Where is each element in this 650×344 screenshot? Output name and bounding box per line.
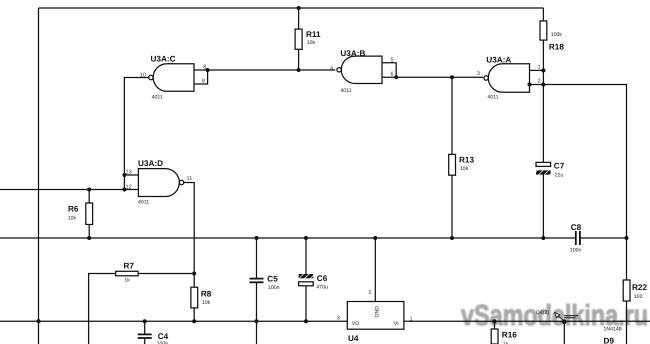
svg-text:VO: VO — [352, 321, 360, 327]
svg-text:2: 2 — [369, 290, 372, 296]
wire bottom rail left of U4 — [0, 320, 347, 322]
svg-text:U3A:C: U3A:C — [151, 55, 176, 64]
resistor R13 — [449, 154, 456, 175]
svg-text:22u: 22u — [555, 172, 564, 178]
wire U4 GND riser — [374, 238, 376, 302]
wire R22 to D9 — [626, 301, 628, 344]
svg-text:C7: C7 — [554, 161, 565, 170]
wire R7 right — [138, 273, 194, 275]
wire R6 riser bottom — [88, 225, 90, 239]
wire R8 to bottom rail — [193, 308, 195, 321]
wire Q4 branch down — [563, 321, 565, 344]
resistor R8 — [191, 287, 198, 308]
svg-text:1N4148: 1N4148 — [604, 327, 622, 333]
wire C5 riser top — [256, 238, 258, 278]
resistor R16 — [491, 329, 498, 344]
wire left vertical — [38, 8, 40, 344]
svg-text:12: 12 — [126, 184, 132, 190]
wire top rail — [39, 7, 544, 9]
svg-text:100n: 100n — [268, 285, 280, 291]
wire U3A:B pin5 stub — [382, 63, 396, 78]
wire U3A:C out to U3A:B in (y=70) — [194, 69, 335, 71]
wire R18 riser top — [542, 8, 544, 21]
resistor R11 — [295, 29, 302, 49]
resistor R6 — [86, 203, 93, 225]
svg-text:10k: 10k — [68, 216, 77, 222]
svg-text:11: 11 — [187, 176, 193, 182]
svg-text:R13: R13 — [459, 156, 474, 165]
wire net to U3A:D pin12 (y=189.5) — [0, 189, 138, 191]
wire y=238 C8 to R22 line — [581, 237, 627, 239]
svg-text:1k: 1k — [124, 278, 130, 284]
svg-text:U3A:D: U3A:D — [138, 159, 163, 168]
svg-text:1: 1 — [538, 65, 541, 71]
svg-text:9: 9 — [202, 78, 205, 84]
wire C6 riser bottom — [305, 286, 307, 321]
svg-text:C4: C4 — [158, 332, 169, 341]
wire R18 to C7 vertical — [542, 40, 544, 162]
wire U3A:A pin2 to R22 — [530, 85, 627, 281]
capacitor C6 (electrolytic) — [299, 274, 328, 291]
wire C5 riser bottom — [256, 283, 258, 344]
svg-text:U4: U4 — [348, 334, 359, 343]
svg-text:C6: C6 — [317, 274, 328, 283]
svg-text:4011: 4011 — [340, 88, 351, 94]
svg-text:GND: GND — [375, 306, 381, 318]
capacitor C4 — [138, 334, 152, 338]
svg-text:U3A:B: U3A:B — [340, 49, 365, 58]
wire R13 riser bottom — [451, 175, 453, 238]
svg-text:3: 3 — [477, 71, 480, 77]
wire R7 left + down — [89, 274, 116, 344]
capacitor C7 (electrolytic) — [536, 161, 565, 178]
wire U3A:D pin13 stub — [124, 174, 138, 176]
svg-text:13: 13 — [126, 169, 132, 175]
svg-text:4011: 4011 — [152, 95, 163, 101]
nand U3A:A — [477, 55, 541, 100]
wire R11 riser top — [298, 8, 300, 29]
wire R16 riser — [494, 321, 496, 329]
wire U3A:C pin9 stub — [194, 70, 208, 84]
probe Q4(2) marker — [536, 310, 578, 321]
svg-text:100k: 100k — [551, 32, 563, 38]
nand U3A:D — [126, 159, 193, 206]
wire U3A:C output to U3A:D inputs — [124, 78, 148, 190]
svg-text:4: 4 — [330, 66, 333, 72]
svg-text:C8: C8 — [571, 223, 582, 232]
regulator U4 — [337, 290, 413, 344]
resistor R18 — [540, 21, 547, 40]
svg-text:D9: D9 — [604, 337, 615, 344]
wire U3A:A pin1 stub — [530, 69, 544, 71]
wire C4 riser — [144, 321, 146, 334]
wire R13 riser top — [451, 77, 453, 154]
svg-text:100: 100 — [634, 294, 643, 300]
wire R11 riser bottom — [298, 49, 300, 70]
svg-text:4011: 4011 — [138, 200, 149, 206]
svg-text:1: 1 — [410, 317, 413, 323]
svg-text:10k: 10k — [202, 300, 211, 306]
svg-text:R8: R8 — [201, 289, 212, 298]
wire GND rail y=238 (left of C8) — [0, 237, 575, 239]
svg-text:R7: R7 — [124, 261, 135, 270]
svg-text:10k: 10k — [307, 40, 316, 46]
nand U3A:B — [330, 49, 394, 94]
svg-text:100n: 100n — [570, 247, 582, 253]
svg-text:R18: R18 — [549, 43, 564, 52]
nand U3A:C — [140, 55, 207, 101]
resistor R7 — [116, 271, 138, 276]
svg-text:R11: R11 — [306, 30, 321, 39]
svg-text:C5: C5 — [267, 275, 278, 284]
svg-text:4011: 4011 — [487, 94, 498, 100]
svg-text:R6: R6 — [68, 205, 79, 214]
svg-text:R16: R16 — [502, 331, 517, 340]
wire U3A:B pin6 to U3A:A out (y=77.3) — [382, 76, 483, 78]
svg-text:2: 2 — [538, 79, 541, 85]
svg-text:3: 3 — [337, 316, 340, 322]
svg-text:470u: 470u — [316, 285, 328, 291]
svg-text:VI: VI — [394, 321, 399, 327]
wire bottom rail right of U4 — [404, 320, 650, 322]
wire C6 riser top — [305, 238, 307, 274]
resistor R22 — [623, 280, 630, 301]
svg-text:10k: 10k — [460, 166, 469, 172]
wire C7 to rail — [542, 175, 544, 238]
wire C4 bottom — [144, 339, 146, 344]
wire R6 riser top — [88, 190, 90, 204]
svg-text:R22: R22 — [632, 283, 647, 292]
capacitor C5 — [250, 279, 264, 283]
svg-text:U3A:A: U3A:A — [486, 55, 511, 64]
svg-text:Q4(2): Q4(2) — [536, 310, 550, 316]
capacitor C8 — [576, 231, 580, 245]
wire U3A:D out down to R8 — [184, 183, 194, 288]
